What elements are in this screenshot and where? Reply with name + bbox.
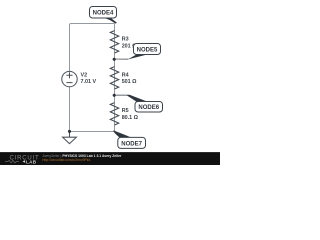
svg-text:501 Ω: 501 Ω: [122, 79, 137, 85]
svg-text:NODE6: NODE6: [138, 105, 159, 111]
svg-text:LAB: LAB: [26, 159, 37, 164]
svg-text:R3: R3: [122, 36, 129, 42]
svg-text:R5: R5: [122, 108, 129, 114]
svg-text:V2: V2: [81, 72, 88, 78]
svg-text:NODE7: NODE7: [121, 141, 142, 147]
svg-text:http://circuitlab.com/c/2nnv9P: http://circuitlab.com/c/2nnv9Pk4: [43, 158, 91, 162]
svg-text:NODE4: NODE4: [93, 11, 114, 17]
svg-text:80.1 Ω: 80.1 Ω: [122, 115, 139, 121]
svg-text:R4: R4: [122, 72, 129, 78]
svg-text:7.01 V: 7.01 V: [81, 79, 97, 85]
svg-text:NODE5: NODE5: [137, 47, 158, 53]
